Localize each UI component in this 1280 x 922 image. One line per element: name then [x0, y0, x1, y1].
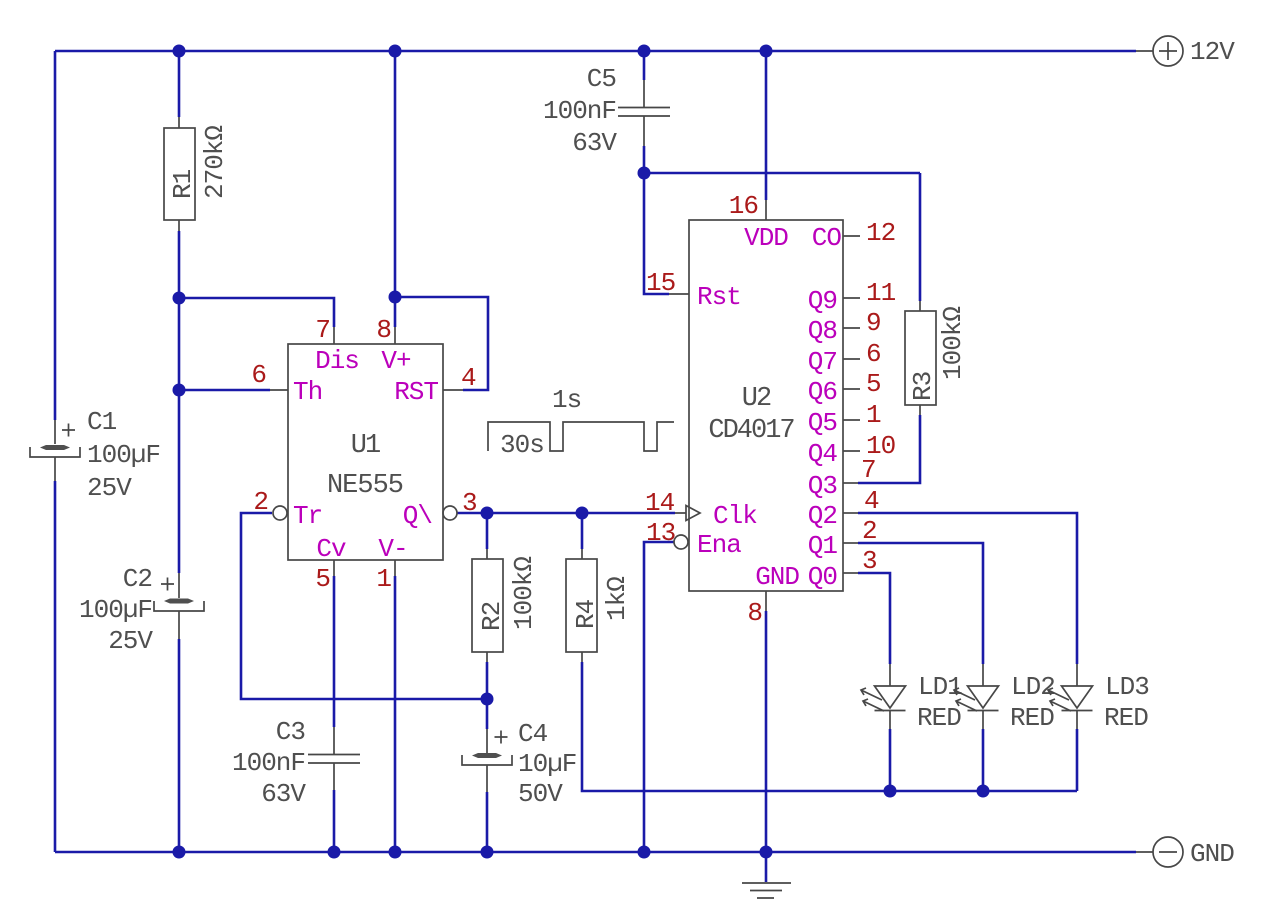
svg-text:100nF: 100nF — [232, 748, 305, 778]
capacitor C3 100nF — [308, 727, 360, 790]
terminal +12V — [1136, 36, 1183, 66]
U1 pin 4 RST stub — [443, 389, 463, 391]
svg-text:15: 15 — [646, 268, 675, 298]
capacitor C5 100nF — [618, 80, 670, 146]
wire: Tr (pin2) loop to R2/C4 node — [241, 513, 487, 699]
svg-text:25V: 25V — [108, 626, 153, 656]
U2 pin 9 Q8 stub — [843, 327, 860, 329]
wire: top rail to R1 — [178, 51, 181, 117]
wire: link down to R3 — [919, 173, 922, 301]
svg-text:RED: RED — [1010, 703, 1054, 733]
wire: V- (pin1) down to GND rail — [394, 576, 397, 852]
svg-text:270kΩ: 270kΩ — [200, 126, 230, 199]
U2 pin 12 CO stub — [843, 235, 860, 237]
svg-text:11: 11 — [866, 278, 896, 308]
U2 pin 14 Clk triangle — [675, 506, 700, 521]
U2 pin 7 Q3 stub — [843, 482, 858, 484]
svg-text:LD1: LD1 — [918, 672, 962, 702]
svg-text:1s: 1s — [552, 385, 581, 415]
value label R1 270kOhm — [200, 126, 230, 199]
svg-text:1: 1 — [376, 564, 391, 594]
U2 pin 8 GND stub — [765, 591, 767, 611]
svg-text:1kΩ: 1kΩ — [602, 577, 632, 621]
U1 pin 5 Cv stub — [333, 560, 335, 576]
U1 pin 6 Th stub — [270, 389, 288, 391]
svg-text:3: 3 — [862, 546, 877, 576]
svg-text:Q6: Q6 — [808, 377, 837, 407]
U1 pin 2 Tr inverting bubble — [273, 506, 287, 520]
wire: Th (pin6) to C2 top node — [179, 389, 270, 392]
U1 pin 1 V- stub — [394, 560, 396, 576]
wire: R1 bottom down to C2 — [178, 231, 181, 573]
svg-text:R4: R4 — [571, 599, 601, 629]
wire: output node down to R2 — [486, 513, 489, 549]
svg-text:2: 2 — [862, 516, 877, 546]
svg-text:6: 6 — [251, 360, 266, 390]
value label C1 100uF 25V — [87, 407, 160, 503]
svg-text:GND: GND — [1190, 839, 1234, 869]
wire: top rail down to C5 — [643, 51, 646, 80]
svg-text:C2: C2 — [123, 564, 152, 594]
svg-text:1: 1 — [866, 400, 881, 430]
value label C2 100uF 25V — [79, 564, 153, 656]
wire: GND rail stub to earth symbol — [765, 852, 768, 882]
capacitor C4 electrolytic — [462, 729, 512, 792]
LED LD1 — [861, 664, 906, 729]
value label C3 100nF 63V — [232, 717, 306, 809]
U2 pin 4 Q2 stub — [843, 512, 858, 514]
svg-text:Clk: Clk — [713, 501, 757, 531]
U2 pin 3 Q0 stub — [843, 572, 858, 574]
wire: Ena (pin13) down to GND rail — [644, 542, 674, 852]
IC U2 CD4017 body — [689, 220, 843, 591]
value label C4 10uF 50V — [518, 719, 576, 809]
wire: LED1 cathode down to rail — [889, 729, 892, 791]
label 12V — [1190, 37, 1235, 67]
svg-text:7: 7 — [861, 455, 876, 485]
svg-text:100µF: 100µF — [87, 440, 160, 470]
U2 pin 16 VDD stub — [765, 200, 767, 220]
svg-text:Q7: Q7 — [808, 347, 837, 377]
U2 pin 2 Q1 stub — [843, 542, 858, 544]
U2 pin 6 Q7 stub — [843, 358, 860, 360]
label LD1 RED — [917, 672, 962, 733]
wire: Dis (pin7) to R1 bottom node — [179, 298, 334, 327]
svg-text:R2: R2 — [477, 602, 507, 631]
value label R2 100kOhm — [509, 557, 539, 630]
svg-text:Q\: Q\ — [403, 501, 433, 531]
wire: LED2 cathode down to rail — [982, 729, 985, 791]
wire: R3 bottom to Q3 (pin7) — [858, 415, 920, 483]
LED LD3 — [1048, 664, 1093, 729]
svg-text:Q8: Q8 — [808, 316, 837, 346]
wire: Cv (pin5) down to C3 — [333, 576, 336, 727]
svg-text:LD2: LD2 — [1011, 672, 1055, 702]
svg-text:C4: C4 — [518, 719, 548, 749]
svg-text:Q0: Q0 — [808, 562, 837, 592]
svg-text:Q9: Q9 — [808, 286, 837, 316]
svg-text:V+: V+ — [381, 346, 411, 376]
svg-text:5: 5 — [866, 369, 881, 399]
svg-text:Tr: Tr — [293, 501, 322, 531]
svg-text:4: 4 — [864, 486, 879, 516]
U2 pin 13 Ena inverting bubble — [674, 535, 688, 549]
wire: Q0 (pin3) to LED1 anode — [858, 573, 890, 664]
svg-text:2: 2 — [253, 487, 268, 517]
wire: C2 bottom to GND rail — [178, 639, 181, 852]
svg-text:63V: 63V — [261, 779, 306, 809]
svg-text:100µF: 100µF — [79, 595, 152, 625]
ground (earth) symbol — [742, 883, 791, 898]
value label R3 100kOhm — [938, 307, 968, 380]
svg-text:12V: 12V — [1190, 37, 1235, 67]
svg-text:RED: RED — [917, 703, 961, 733]
svg-text:CD4017: CD4017 — [708, 416, 794, 446]
svg-text:Q3: Q3 — [808, 471, 837, 501]
wire: C3 bottom to GND rail — [333, 790, 336, 852]
wire: left vertical rail upper (12V to C1) — [54, 51, 57, 420]
svg-text:C5: C5 — [587, 64, 616, 94]
svg-text:CO: CO — [812, 223, 842, 253]
svg-text:R1: R1 — [168, 169, 198, 199]
svg-text:3: 3 — [462, 488, 477, 518]
label LD3 RED — [1104, 672, 1149, 733]
wire: R4 bottom to LED cathode rail — [582, 662, 1077, 791]
svg-text:8: 8 — [376, 315, 391, 345]
terminal GND — [1136, 837, 1183, 867]
wire: C5 bottom to reset node — [643, 146, 646, 173]
svg-text:Cv: Cv — [316, 534, 346, 564]
U2 pin 5 Q6 stub — [843, 388, 860, 390]
svg-text:100kΩ: 100kΩ — [938, 307, 968, 380]
resistor R1 270k — [164, 117, 198, 231]
svg-text:Th: Th — [293, 377, 322, 407]
wire: Q\ output to Clk — [457, 512, 675, 515]
svg-text:V-: V- — [378, 534, 407, 564]
wire: left vertical rail lower (C1 to GND rail) — [54, 481, 57, 852]
wire: Q2 (pin4) to LED3 anode — [858, 513, 1077, 664]
wire: RST (pin4) loop to V+ node — [395, 297, 488, 390]
U1 pin labels — [293, 346, 438, 564]
svg-text:U1: U1 — [351, 431, 380, 461]
label LD2 RED — [1010, 672, 1055, 733]
svg-text:Q2: Q2 — [808, 501, 837, 531]
svg-text:63V: 63V — [572, 128, 617, 158]
label GND — [1190, 839, 1234, 869]
svg-text:6: 6 — [866, 339, 881, 369]
U1 pin numbers — [251, 315, 476, 594]
U2 pin 10 Q4 stub — [843, 450, 860, 452]
svg-text:Dis: Dis — [315, 346, 359, 376]
svg-text:RST: RST — [394, 377, 438, 407]
U1 pin 7 Dis stub — [333, 327, 335, 344]
svg-text:C1: C1 — [87, 407, 117, 437]
svg-text:Q5: Q5 — [808, 408, 837, 438]
svg-text:14: 14 — [645, 488, 675, 518]
svg-text:Q1: Q1 — [808, 531, 838, 561]
wire: R2 bottom to C4 top node — [486, 662, 489, 729]
svg-text:Q4: Q4 — [808, 439, 838, 469]
svg-text:30s: 30s — [500, 430, 544, 460]
svg-text:8: 8 — [747, 598, 762, 628]
svg-text:9: 9 — [866, 308, 881, 338]
capacitor C2 electrolytic — [154, 573, 204, 639]
svg-text:NE555: NE555 — [327, 471, 403, 501]
wire: Q1 (pin2) to LED2 anode — [858, 543, 983, 664]
resistor R3 100k — [905, 301, 938, 415]
wire: V+ (pin8) drop from top rail — [394, 51, 397, 327]
svg-text:100kΩ: 100kΩ — [509, 557, 539, 630]
svg-text:25V: 25V — [87, 473, 132, 503]
svg-text:VDD: VDD — [744, 223, 788, 253]
wire: output node down to R4 — [581, 513, 584, 549]
U2 pin 11 Q9 stub — [843, 297, 860, 299]
svg-text:16: 16 — [729, 191, 758, 221]
U2 pin 1 Q5 stub — [843, 419, 860, 421]
wire: LED3 cathode down to rail — [1076, 729, 1079, 791]
wire: VDD (pin16) drop from top rail — [765, 51, 768, 200]
wire: bottom GND rail — [55, 851, 1136, 854]
resistor R4 1k — [566, 549, 601, 662]
wire: C4 bottom to GND rail — [486, 792, 489, 852]
svg-text:13: 13 — [646, 518, 675, 548]
svg-text:100nF: 100nF — [543, 96, 616, 126]
wire: reset node to Rst (pin15) — [644, 173, 669, 294]
svg-text:4: 4 — [461, 363, 476, 393]
U2 pin labels — [697, 223, 841, 592]
svg-text:5: 5 — [315, 564, 330, 594]
value label R4 1kOhm — [602, 577, 632, 621]
svg-text:7: 7 — [315, 315, 330, 345]
resistor R2 100k — [472, 549, 507, 662]
U2 pin 15 Rst stub — [669, 293, 689, 295]
svg-text:GND: GND — [755, 562, 799, 592]
value label C5 100nF 63V — [543, 64, 617, 158]
LED LD2 — [954, 664, 999, 729]
svg-text:50V: 50V — [518, 779, 563, 809]
U1 pin 8 V+ stub — [394, 327, 396, 344]
U1 pin 3 Q\ inverting bubble — [443, 506, 457, 520]
svg-text:Ena: Ena — [697, 530, 741, 560]
wire: reset node across to R3 top — [644, 172, 920, 175]
svg-text:C3: C3 — [276, 717, 305, 747]
svg-text:12: 12 — [866, 218, 895, 248]
op waveform 30s/1s timing sketch — [488, 385, 674, 460]
U2 pin numbers — [645, 191, 896, 628]
svg-text:LD3: LD3 — [1105, 672, 1149, 702]
wire: GND pin (pin8) down to GND rail — [765, 611, 768, 852]
svg-text:10µF: 10µF — [518, 749, 576, 779]
svg-text:U2: U2 — [742, 384, 771, 414]
capacitor C1 electrolytic — [30, 420, 80, 481]
svg-text:R3: R3 — [908, 372, 938, 401]
IC U1 NE555 body — [288, 344, 443, 560]
svg-text:RED: RED — [1104, 703, 1148, 733]
wire: +12V top supply rail — [55, 50, 1136, 53]
svg-text:Rst: Rst — [697, 282, 741, 312]
